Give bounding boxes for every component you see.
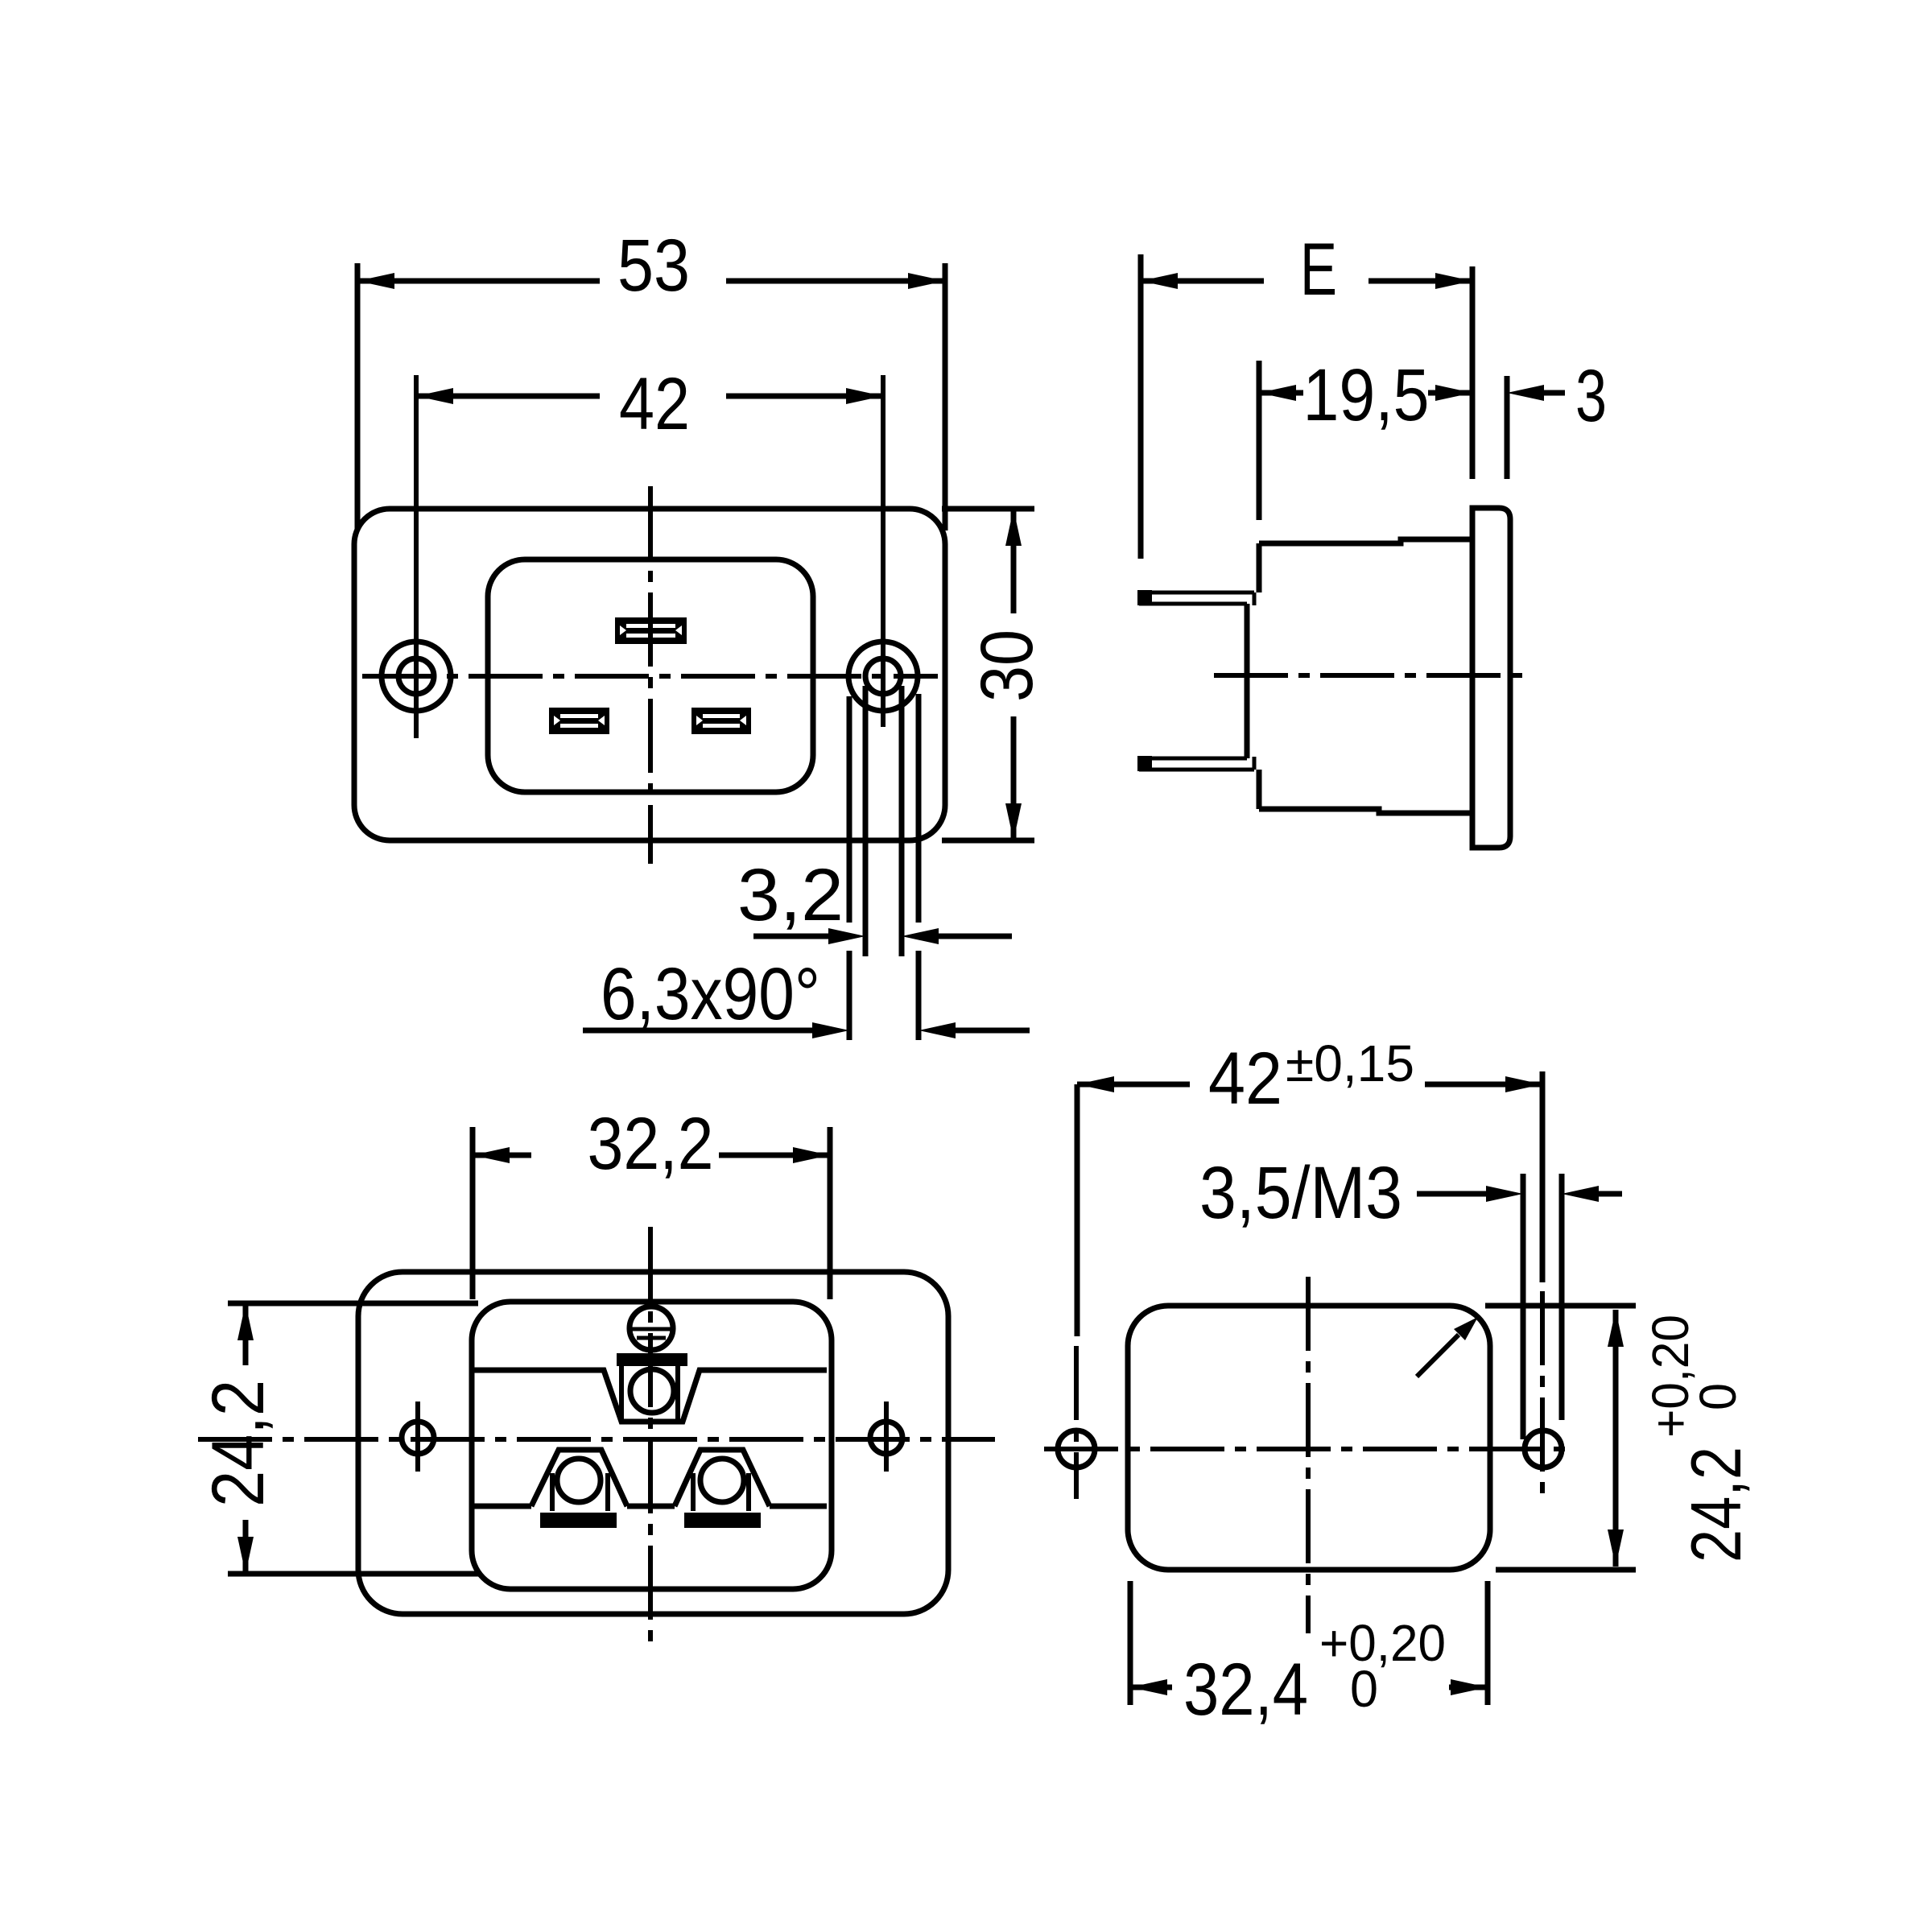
dimension 42 panel: extension lines (1077, 1071, 1542, 1499)
rear view: lower partition line (474, 1504, 827, 1509)
svg-text:+0,20: +0,20 (1319, 1614, 1446, 1672)
rear view: earth terminal bracket (621, 1366, 678, 1422)
rear view: left terminal tent (531, 1450, 627, 1511)
svg-text:3,5/M3: 3,5/M3 (1199, 1152, 1402, 1234)
rear view: right terminal tent (675, 1450, 770, 1511)
dimension 3,2: label (737, 854, 844, 936)
dimension 3,5/M3: label (1199, 1152, 1402, 1234)
svg-text:6,3x90°: 6,3x90° (601, 953, 820, 1035)
side view: horizontal centerline (1214, 673, 1524, 678)
panel cutout: corner radius arrow (1417, 1317, 1478, 1377)
front view: connector face recess (488, 559, 813, 792)
front view: neutral pin slot (bottom right) (691, 708, 751, 734)
dimension 6,3x90: leader and arrows (583, 1022, 1030, 1038)
svg-text:32,4: 32,4 (1183, 1649, 1308, 1731)
rear view: vertical centerline (648, 1227, 653, 1652)
panel cutout: horizontal centerline (1044, 1447, 1575, 1451)
dimension 32,2: arrows (473, 1147, 830, 1163)
dimension 19,5: label (1303, 354, 1430, 436)
dimension 30: arrows (1005, 509, 1022, 840)
countersink projection lines (6.3 dia) (849, 694, 919, 1040)
dimension 53: label (617, 225, 690, 307)
rear view: horizontal centerline (198, 1437, 995, 1442)
dimension 19,5: dimension line (1259, 390, 1472, 396)
dimension 42: label (619, 363, 690, 445)
svg-text:19,5: 19,5 (1303, 354, 1430, 436)
dimension E: arrows (1141, 273, 1472, 289)
dimension 19,5: extension line (1257, 361, 1262, 520)
rear view: upper partition line with V notch (474, 1370, 827, 1422)
dimension 32,2: extension lines (473, 1127, 830, 1299)
dimension 30: label (966, 630, 1048, 702)
side view: lower solder pin (1137, 756, 1254, 771)
dimension 32,4 panel: arrows (1130, 1679, 1488, 1695)
front view: line pin slot (bottom left) (549, 708, 609, 734)
dimension 30: extension lines (942, 509, 1034, 840)
dimension 30: dimension line (1011, 509, 1017, 840)
dimension 3: label (1575, 355, 1607, 437)
svg-text:53: 53 (617, 225, 690, 307)
dimension 42 panel: dimension line (1077, 1082, 1542, 1088)
rear view: left terminal solder tab (540, 1513, 617, 1528)
panel cutout: opening outline (1128, 1306, 1490, 1570)
dimension 3,5/M3: leader (1417, 1186, 1523, 1202)
rear view: mounting flange outline (358, 1272, 948, 1614)
front view: right hole vertical centerline (881, 375, 885, 727)
panel cutout: right fixing hole (1525, 1430, 1562, 1468)
dimension 19,5: arrows (1259, 385, 1472, 401)
panel cutout: left fixing hole (1058, 1430, 1095, 1468)
rear view: earth clamp plate (617, 1353, 687, 1366)
dimension 53: dimension line (357, 279, 945, 284)
side view: upper solder pin (1137, 590, 1254, 605)
dimension 24,2 panel: dimension line (1613, 1310, 1619, 1567)
svg-text:0: 0 (1689, 1383, 1747, 1410)
dimension 32,2: label (588, 1103, 714, 1185)
rear view: body outline (472, 1302, 832, 1589)
dimension 32,2: dimension line (473, 1153, 830, 1158)
rear view: earth wire hole (630, 1369, 674, 1413)
front view: earth pin slot (top) (615, 617, 687, 644)
dimension 3,5/M3: right arrow (1562, 1186, 1622, 1202)
svg-text:±0,15: ±0,15 (1286, 1034, 1414, 1092)
rear view: right mounting hole (870, 1402, 902, 1472)
panel cutout: vertical centerline (1306, 1277, 1311, 1633)
svg-text:30: 30 (966, 630, 1048, 702)
panel cutout: left hole centerline (1074, 1346, 1079, 1499)
side view: body left edge lower (1257, 770, 1262, 809)
svg-text:24,2: 24,2 (197, 1380, 279, 1507)
front view: horizontal centerline (362, 674, 938, 679)
svg-text:42: 42 (619, 363, 690, 445)
dimension 42: dimension line (416, 394, 883, 399)
dimension 24,2 rear: dimension line (243, 1303, 249, 1574)
dimension 3,2: leader and arrows (753, 928, 1012, 944)
dimension 42 panel: arrows (1077, 1076, 1542, 1092)
side view: body left edge middle (1245, 604, 1250, 758)
svg-text:0: 0 (1350, 1660, 1378, 1718)
dimension 3,5/M3: extension lines (1523, 1174, 1562, 1439)
rear view: left terminal wire hole (557, 1459, 601, 1502)
side view: flange plate (1472, 508, 1510, 848)
side view: body bottom edge (1259, 809, 1472, 813)
dimension 42 panel: label (1208, 1034, 1414, 1120)
svg-text:32,2: 32,2 (588, 1103, 714, 1185)
rear view: left mounting hole (402, 1402, 434, 1472)
dimension 24,2 rear: arrows (237, 1303, 254, 1574)
svg-text:3: 3 (1575, 355, 1607, 437)
dimension 32,4 panel: dimension line (1130, 1685, 1488, 1690)
front view: left mounting hole (382, 642, 451, 711)
svg-text:42: 42 (1208, 1038, 1282, 1120)
front view: vertical centerline (648, 486, 653, 864)
dimension 3: extension line (1505, 376, 1510, 479)
dimension 32,4 panel: extension lines (1130, 1581, 1488, 1705)
svg-text:+0,20: +0,20 (1641, 1315, 1699, 1438)
svg-text:24,2: 24,2 (1676, 1447, 1756, 1563)
dimension 53: extension lines (357, 263, 945, 530)
dimension 3: arrow and leader (1507, 385, 1565, 401)
dimension E: extension lines (1141, 254, 1472, 559)
dimension 24,2 rear: label (197, 1380, 279, 1507)
side view: body top edge (1259, 539, 1472, 543)
side view: body left edge upper (1257, 543, 1262, 592)
svg-text:3,2: 3,2 (737, 854, 844, 936)
front view: mounting flange outline (354, 509, 945, 840)
rear view: right terminal solder tab (684, 1513, 761, 1528)
dimension 53: arrows (357, 273, 945, 289)
rear view: right terminal wire hole (700, 1459, 744, 1502)
rear view: earth screw head (629, 1307, 674, 1350)
dimension 24,2 panel: extension lines (1485, 1306, 1636, 1570)
dimension E: label (1300, 229, 1337, 311)
dimension 24,2 panel: arrows (1608, 1310, 1624, 1567)
dimension E: dimension line (1141, 279, 1472, 284)
front view: right mounting hole (848, 642, 918, 711)
hole projection lines (3.2 dia) (865, 686, 902, 956)
dimension 42: arrows (416, 388, 883, 404)
dimension 6,3x90: label (601, 953, 820, 1035)
dimension 24,2 rear: extension lines (228, 1303, 478, 1574)
front view: left hole vertical centerline (414, 375, 419, 738)
svg-text:E: E (1300, 229, 1337, 311)
dimension 24,2 panel: label (1641, 1315, 1756, 1563)
dimension 32,4 panel: label (1183, 1614, 1446, 1731)
